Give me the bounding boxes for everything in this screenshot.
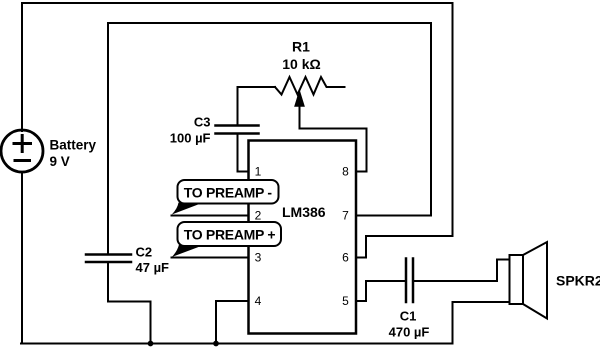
wire C2 top via inner rail to pin 7 bbox=[108, 23, 431, 255]
svg-text:8: 8 bbox=[342, 165, 349, 179]
wire battery- down bbox=[21, 172, 23, 344]
svg-text:47 µF: 47 µF bbox=[136, 260, 170, 275]
wire C3 bottom lead to pin 1 bbox=[238, 134, 249, 172]
wire battery+ top rail to pin 6 bbox=[22, 3, 453, 258]
svg-text:5: 5 bbox=[342, 294, 349, 308]
wire C3 top lead to R1 bbox=[238, 87, 276, 126]
svg-text:3: 3 bbox=[255, 251, 262, 265]
speaker SPKR2 bbox=[510, 255, 524, 304]
svg-text:4: 4 bbox=[255, 294, 262, 308]
callout TO PREAMP + bbox=[172, 222, 281, 257]
svg-text:2: 2 bbox=[255, 209, 262, 223]
svg-text:LM386: LM386 bbox=[282, 204, 326, 220]
wire pin 4 to ground rail bbox=[216, 301, 249, 344]
svg-text:470 µF: 470 µF bbox=[389, 325, 430, 340]
svg-text:C1: C1 bbox=[400, 309, 417, 324]
svg-text:R1: R1 bbox=[292, 39, 310, 55]
svg-text:TO PREAMP -: TO PREAMP - bbox=[184, 185, 273, 201]
svg-text:TO PREAMP +: TO PREAMP + bbox=[184, 227, 276, 243]
svg-text:6: 6 bbox=[342, 251, 349, 265]
svg-text:SPKR2: SPKR2 bbox=[556, 273, 600, 289]
wire speaker bottom riser bbox=[453, 302, 510, 344]
capacitor C2 bbox=[86, 255, 131, 263]
wire pin 3 stub bbox=[172, 257, 249, 259]
capacitor C1 bbox=[406, 259, 413, 303]
callout TO PREAMP - bbox=[172, 180, 279, 215]
svg-text:9 V: 9 V bbox=[50, 154, 70, 169]
svg-text:C3: C3 bbox=[194, 115, 211, 130]
svg-text:10 kΩ: 10 kΩ bbox=[282, 56, 320, 72]
wire wiper to pin 8 bbox=[300, 105, 367, 172]
svg-text:C2: C2 bbox=[136, 245, 153, 260]
svg-text:1: 1 bbox=[255, 165, 262, 179]
potentiometer wiper arrow bbox=[295, 91, 304, 106]
svg-text:7: 7 bbox=[342, 209, 349, 223]
svg-text:100 µF: 100 µF bbox=[170, 131, 211, 146]
wire bottom ground rail bbox=[21, 343, 453, 345]
wire C2 bottom to ground rail bbox=[108, 262, 151, 344]
battery B1 bbox=[1, 130, 43, 172]
junction pin4/ground bbox=[213, 341, 219, 347]
wire pin 2 stub bbox=[172, 215, 249, 217]
wire pin 5 to C1 bbox=[356, 281, 406, 301]
junction C2/ground bbox=[148, 341, 154, 347]
wire C1 to speaker top bbox=[413, 260, 510, 282]
svg-text:Battery: Battery bbox=[50, 138, 97, 153]
op-amp U1 LM386 body bbox=[249, 141, 357, 334]
capacitor C3 bbox=[216, 126, 259, 134]
resistor R1 potentiometer zigzag bbox=[275, 77, 345, 95]
